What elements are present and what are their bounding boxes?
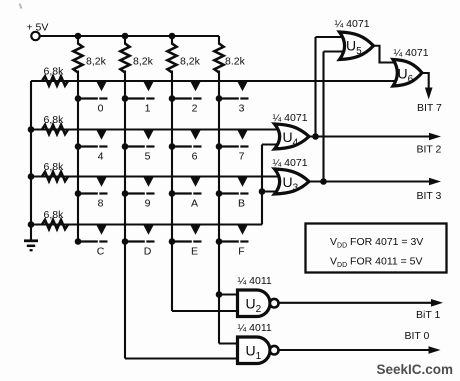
wire col4 to U1 <box>219 342 239 344</box>
svg-text:¼ 4011: ¼ 4011 <box>238 275 272 287</box>
wire row4 riser <box>261 145 263 225</box>
key switch 4 <box>75 130 108 163</box>
key switch F <box>216 225 249 258</box>
label 6.8k row 1 <box>44 66 65 78</box>
label 6.8k row 4 <box>44 209 65 221</box>
wire column 3 upper lead <box>171 36 173 45</box>
resistor 6.8k row 3 <box>42 172 68 181</box>
key switch A <box>169 177 202 210</box>
scan smudge <box>20 4 22 9</box>
+5V supply label <box>27 22 49 34</box>
node row4-U3 branch <box>259 188 266 195</box>
wire U6 output <box>421 73 429 89</box>
svg-text:8,2k: 8,2k <box>180 56 201 68</box>
arrow BIT 7 <box>425 88 433 100</box>
wire +5V rail <box>40 35 219 37</box>
wire U3out riser <box>322 52 324 182</box>
key switch E <box>169 225 202 258</box>
wire U3 lower input <box>262 190 280 192</box>
key switch 3 <box>216 81 249 114</box>
wire column 1 upper lead <box>77 36 79 45</box>
note line VDD 4011 <box>330 256 423 270</box>
label U4 quarter-4071 <box>273 112 308 124</box>
+5V terminal <box>31 32 39 40</box>
wire BIT 3 <box>308 180 431 182</box>
wire column 2 <box>124 71 126 359</box>
svg-text:BIT 3: BIT 3 <box>417 190 442 202</box>
wire BIT 1 <box>279 302 433 304</box>
resistor 6.8k row 1 <box>42 76 68 85</box>
svg-text:6,8k: 6,8k <box>44 66 65 78</box>
arrow BIT 2 <box>429 133 441 141</box>
svg-text:7: 7 <box>239 151 245 163</box>
label U5 quarter-4071 <box>335 18 370 30</box>
svg-text:4: 4 <box>98 151 104 163</box>
label BIT 3 <box>417 190 442 202</box>
svg-text:3: 3 <box>239 103 245 115</box>
node rail-col2 <box>122 33 129 40</box>
resistor 8.2k column 1 <box>73 44 82 73</box>
svg-text:6,8k: 6,8k <box>44 209 65 221</box>
svg-text:BiT 1: BiT 1 <box>416 309 440 321</box>
label BIT 7 <box>417 102 442 114</box>
watermark SeekIC.com <box>377 362 454 377</box>
node bus-row4 <box>28 221 35 228</box>
svg-text:1: 1 <box>145 103 151 115</box>
label 8.2k column 2 <box>133 56 154 68</box>
label BIT 2 <box>417 144 442 156</box>
resistor 8.2k column 2 <box>120 44 129 73</box>
or-gate U4 <box>275 124 310 149</box>
wire row 3 <box>31 175 280 177</box>
key switch B <box>216 177 249 210</box>
svg-text:BIT 0: BIT 0 <box>405 330 430 342</box>
node rail-col3 <box>169 33 176 40</box>
wire column 4 upper lead <box>218 36 220 45</box>
resistor 8.2k column 4 <box>214 44 223 73</box>
wire col2 to U1 <box>125 357 239 359</box>
resistor 6.8k row 2 <box>42 125 68 134</box>
node bus-row2 <box>28 126 35 133</box>
label BIT 0 <box>405 330 430 342</box>
label 6.8k row 3 <box>44 161 65 173</box>
svg-text:BIT 7: BIT 7 <box>417 102 442 114</box>
node U4 output <box>312 133 319 140</box>
key switch 8 <box>75 177 108 210</box>
arrow BIT 3 <box>429 178 441 186</box>
label 8.2k column 3 <box>180 56 201 68</box>
nand-gate U1 <box>238 337 279 364</box>
svg-text:¼ 4071: ¼ 4071 <box>273 112 308 124</box>
svg-text:D: D <box>144 246 152 258</box>
svg-text:C: C <box>97 246 105 258</box>
wire column 2 upper lead <box>124 36 126 45</box>
arrow BIT 0 <box>429 346 441 354</box>
wire row 4 <box>31 223 262 225</box>
or-gate U5 <box>340 32 374 60</box>
svg-text:9: 9 <box>145 198 151 210</box>
wire column 1 <box>77 71 79 242</box>
label U3 quarter-4071 <box>273 157 308 169</box>
key switch 0 <box>75 81 108 114</box>
resistor 8.2k column 3 <box>167 44 176 73</box>
node U3 output <box>320 178 327 185</box>
key switch 5 <box>122 130 155 163</box>
node bus-row3 <box>28 173 35 180</box>
resistor 6.8k row 4 <box>42 220 68 229</box>
svg-text:B: B <box>238 198 245 210</box>
wire U5 upper input <box>316 36 345 38</box>
wire ground stub <box>30 225 32 241</box>
key switch 1 <box>122 81 155 114</box>
key switch 9 <box>122 177 155 210</box>
wire U4out riser <box>314 37 316 137</box>
wire col4 to U2 <box>219 293 239 295</box>
svg-text:A: A <box>191 198 198 210</box>
node col4-U2 branch <box>216 291 223 298</box>
wire U5 lower input <box>324 50 345 52</box>
svg-text:¼ 4011: ¼ 4011 <box>238 322 272 334</box>
label 6.8k row 2 <box>44 114 65 126</box>
svg-text:6,8k: 6,8k <box>44 161 65 173</box>
svg-text:¼ 4071: ¼ 4071 <box>335 18 370 30</box>
svg-text:6,8k: 6,8k <box>44 114 65 126</box>
ground <box>24 241 38 250</box>
note line VDD 4071 <box>330 236 423 250</box>
svg-text:E: E <box>191 246 198 258</box>
wire column 3 <box>171 71 173 312</box>
wire BIT 2 <box>308 135 431 137</box>
svg-text:8.2k: 8.2k <box>225 56 246 68</box>
key switch 2 <box>169 81 202 114</box>
key switch C <box>75 225 108 258</box>
wire U5 to U6 <box>372 46 399 63</box>
svg-text:¼ 4071: ¼ 4071 <box>273 157 308 169</box>
label BiT 1 <box>416 309 440 321</box>
svg-text:2: 2 <box>192 103 198 115</box>
label 8.2k column 1 <box>86 56 107 68</box>
note box <box>306 224 447 273</box>
wire BIT 0 <box>279 349 430 351</box>
svg-text:F: F <box>238 246 244 258</box>
label U6 quarter-4071 <box>394 47 429 59</box>
or-gate U6 <box>393 60 422 87</box>
wire column 4 <box>218 71 220 344</box>
label 8.2k column 4 <box>225 56 246 68</box>
nand-gate U2 <box>238 290 279 317</box>
svg-text:6: 6 <box>192 151 198 163</box>
node rail-col1 <box>75 33 82 40</box>
key switch 6 <box>169 130 202 163</box>
svg-text:SeekIC.com: SeekIC.com <box>377 362 454 377</box>
wire U4 lower input <box>262 143 280 145</box>
wire col3 to U2 <box>172 310 239 312</box>
svg-text:8,2k: 8,2k <box>133 56 154 68</box>
label U2 quarter-4011 <box>238 275 272 287</box>
key switch 7 <box>216 130 249 163</box>
svg-text:8,2k: 8,2k <box>86 56 107 68</box>
svg-text:¼ 4071: ¼ 4071 <box>394 47 429 59</box>
svg-text:BIT 2: BIT 2 <box>417 144 442 156</box>
key switch D <box>122 225 155 258</box>
arrow BIT 1 <box>431 299 443 307</box>
wire row 2 <box>31 128 280 130</box>
label U1 quarter-4011 <box>238 322 272 334</box>
svg-text:0: 0 <box>98 103 104 115</box>
wire left bus <box>30 81 32 225</box>
or-gate U3 <box>275 169 310 194</box>
wire row 1 <box>31 80 395 82</box>
svg-text:5: 5 <box>145 151 151 163</box>
svg-text:8: 8 <box>98 198 104 210</box>
